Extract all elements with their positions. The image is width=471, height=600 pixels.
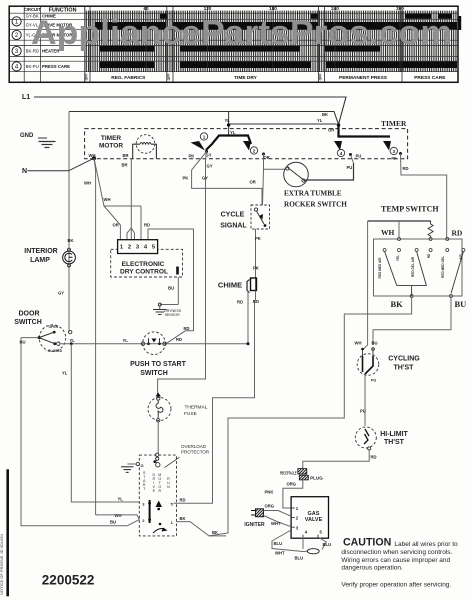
svg-text:Label all wires prior to: Label all wires prior to [394,541,458,548]
svg-text:CHIME: CHIME [218,281,242,290]
svg-text:3: 3 [393,149,396,154]
svg-text:GY: GY [58,291,64,296]
svg-text:RD: RD [180,498,186,503]
svg-text:BU: BU [110,520,116,525]
svg-text:300: 300 [396,6,404,11]
svg-text:OFF: OFF [85,74,89,81]
svg-text:PU: PU [347,165,353,170]
svg-text:ELECTRONIC: ELECTRONIC [122,261,165,268]
svg-text:BR: BR [123,153,129,158]
svg-text:WH: WH [381,228,395,237]
svg-text:BLU: BLU [295,556,304,561]
svg-text:WHT: WHT [275,551,285,556]
svg-text:120: 120 [204,6,212,11]
svg-text:PNK: PNK [265,490,274,495]
svg-text:Verify proper operation after: Verify proper operation after servicing. [341,582,451,589]
svg-text:RD: RD [392,156,397,160]
svg-text:R: R [158,489,161,493]
svg-text:CYCLE: CYCLE [221,212,245,219]
svg-text:LAMP: LAMP [30,257,50,264]
svg-text:OPEN: OPEN [49,325,59,329]
svg-text:SWITCH: SWITCH [14,319,42,326]
svg-text:DOOR: DOOR [19,310,40,317]
svg-text:PU: PU [371,379,377,383]
svg-text:TH'ST: TH'ST [384,439,405,446]
svg-text:RD: RD [253,299,259,304]
svg-text:OR: OR [264,155,270,160]
svg-text:OR: OR [250,180,256,185]
svg-text:HI-LIMIT: HI-LIMIT [380,431,408,438]
svg-text:GY: GY [202,176,208,181]
svg-text:dangerous operation.: dangerous operation. [341,564,403,571]
svg-text:AppliancePartsPros.com: AppliancePartsPros.com [31,14,452,52]
svg-text:RED MED DEL: RED MED DEL [441,256,445,278]
svg-text:YL: YL [118,497,124,502]
svg-text:BK: BK [68,238,74,243]
svg-text:EXTRA TUMBLE: EXTRA TUMBLE [284,190,342,198]
svg-text:CYCLING: CYCLING [388,356,420,363]
svg-text:240: 240 [331,6,339,11]
svg-text:REG. FABRICS: REG. FABRICS [111,75,146,81]
svg-text:PRESS CARE: PRESS CARE [42,64,70,69]
svg-text:MOTOR: MOTOR [99,143,123,150]
svg-text:GAS: GAS [308,511,320,517]
svg-text:RECEPTACLE: RECEPTACLE [280,470,297,475]
svg-text:RD: RD [184,326,190,331]
svg-text:WHT: WHT [271,521,281,526]
svg-text:WH: WH [115,513,122,518]
svg-text:OVERLOAD: OVERLOAD [181,444,207,449]
svg-text:RED DEL AIR: RED DEL AIR [411,256,415,277]
svg-text:BK: BK [180,516,186,521]
svg-text:TIMER: TIMER [381,119,407,128]
svg-text:FUSE: FUSE [184,411,197,417]
svg-text:VALVE: VALVE [305,517,323,523]
svg-text:TIMER: TIMER [101,135,122,142]
svg-text:BK: BK [322,112,328,117]
svg-text:2: 2 [253,149,256,154]
svg-text:YL: YL [123,338,129,343]
svg-text:YL: YL [62,371,68,376]
svg-text:CIRCUIT: CIRCUIT [24,7,41,12]
svg-text:SIGNAL: SIGNAL [220,223,247,230]
svg-text:CAUTION: CAUTION [343,536,391,548]
svg-text:RD: RD [371,455,377,460]
svg-text:TEMP SWITCH: TEMP SWITCH [381,205,439,214]
svg-text:AIR: AIR [459,254,463,260]
svg-text:1: 1 [203,135,206,140]
svg-text:OFF: OFF [167,74,171,81]
svg-text:RD: RD [144,223,150,228]
svg-text:disconnection when servicing c: disconnection when servicing controls. [341,549,452,556]
svg-text:PU: PU [360,409,366,414]
svg-text:OR: OR [113,223,119,228]
svg-text:SWITCH: SWITCH [140,370,168,377]
svg-text:WH: WH [104,197,111,202]
svg-text:CLOSED: CLOSED [48,349,63,353]
svg-text:PLUG: PLUG [310,476,323,481]
svg-text:BU: BU [455,299,467,309]
svg-text:RD: RD [176,337,182,342]
svg-text:ORG: ORG [265,503,275,508]
svg-text:BLU: BLU [274,541,283,546]
svg-text:180: 180 [269,6,277,11]
svg-text:THERMAL: THERMAL [185,405,208,411]
svg-text:YEL: YEL [396,255,400,261]
svg-text:4: 4 [340,151,343,156]
svg-text:IGNITER: IGNITER [244,522,265,528]
svg-text:PRESS CARE: PRESS CARE [414,75,446,81]
svg-text:RD: RD [452,229,463,238]
svg-text:WH: WH [355,341,362,346]
svg-text:RD: RD [237,300,243,305]
svg-text:G: G [141,463,144,468]
svg-text:BK-PU: BK-PU [26,64,39,69]
svg-text:BK: BK [391,299,404,309]
svg-text:YL: YL [70,338,76,343]
svg-text:ROCKER SWITCH: ROCKER SWITCH [284,201,347,209]
svg-text:DRYNESS: DRYNESS [164,309,182,313]
svg-text:N: N [167,485,170,489]
svg-text:WH: WH [84,181,91,186]
svg-text:TH'ST: TH'ST [394,365,415,372]
svg-text:BU: BU [168,286,174,291]
svg-text:NOTICE OF PRDENE JD 3DLION: NOTICE OF PRDENE JD 3DLION [0,534,4,595]
svg-text:OFF: OFF [319,74,323,81]
svg-text:PUSH TO START: PUSH TO START [130,361,186,368]
svg-text:2200522: 2200522 [42,573,95,588]
svg-text:PK: PK [189,154,195,159]
svg-text:RED MED AIR: RED MED AIR [378,257,382,279]
svg-text:YL: YL [230,130,236,135]
svg-text:TIME DRY: TIME DRY [234,75,258,81]
svg-text:YL: YL [317,118,323,123]
svg-text:SENSOR: SENSOR [165,313,181,317]
svg-text:BLU: BLU [323,542,332,547]
svg-text:WH: WH [89,153,96,158]
svg-text:N: N [22,168,27,175]
svg-text:INTERIOR: INTERIOR [24,248,57,255]
svg-text:PU: PU [356,154,362,159]
svg-text:GND: GND [20,133,34,139]
svg-text:BU: BU [372,341,378,346]
svg-text:DRY CONTROL: DRY CONTROL [120,268,168,275]
svg-text:RD: RD [427,253,431,258]
svg-text:BU: BU [20,340,26,345]
svg-text:Wiring errors can cause improp: Wiring errors can cause improper and [341,557,450,564]
svg-text:BR: BR [122,163,128,168]
svg-text:YL: YL [225,118,231,123]
svg-text:L1: L1 [22,94,30,101]
svg-text:60: 60 [143,6,149,11]
svg-text:GY: GY [207,164,213,169]
svg-text:2: 2 [128,245,131,251]
svg-text:ORG: ORG [287,482,297,487]
svg-text:PK: PK [255,236,261,241]
svg-text:PERMANENT PRESS: PERMANENT PRESS [339,75,388,81]
svg-text:PK: PK [183,176,189,181]
svg-text:PROTECTOR: PROTECTOR [181,449,210,454]
svg-text:RD: RD [403,166,409,171]
svg-text:PK: PK [253,266,259,271]
